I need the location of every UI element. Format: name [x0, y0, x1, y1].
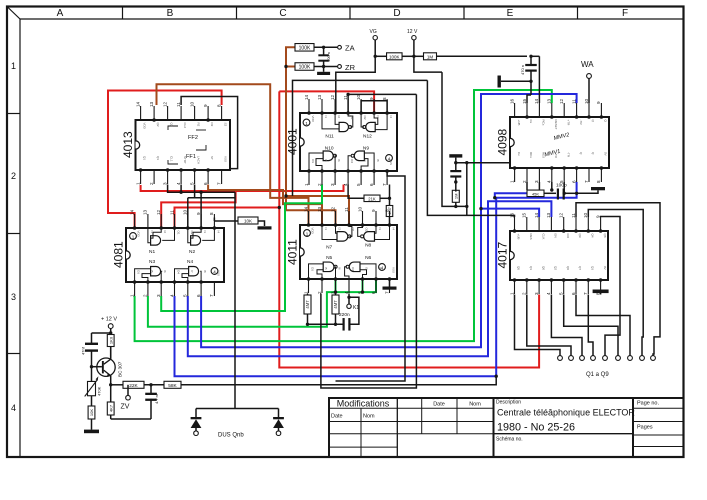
- svg-text:I3: I3: [378, 228, 382, 231]
- wire inner drop x=405 around 4011: [336, 171, 406, 381]
- svg-text:+ 12 V: + 12 V: [101, 317, 117, 323]
- svg-text:10: 10: [357, 206, 362, 212]
- svg-text:Cx: Cx: [529, 120, 533, 124]
- svg-text:1M: 1M: [427, 54, 434, 59]
- svg-text:O4: O4: [177, 270, 181, 274]
- svg-text:1: 1: [135, 182, 140, 185]
- IC 4011 body: [300, 225, 397, 279]
- IC 4081 top pins: [134, 214, 136, 228]
- svg-text:1: 1: [303, 291, 308, 294]
- svg-text:47nf: 47nf: [81, 346, 86, 355]
- capacitor 4.7nF: [145, 393, 157, 395]
- frame column dividers: [122, 7, 124, 20]
- svg-text:6: 6: [571, 180, 576, 183]
- terminal ZA: [338, 45, 342, 49]
- pin1 marker 4011: [304, 230, 311, 237]
- wire green G5 stub pin5: [362, 279, 364, 292]
- svg-text:4081: 4081: [112, 241, 126, 268]
- svg-text:RCx: RCx: [542, 120, 546, 126]
- svg-text:22K: 22K: [129, 383, 138, 389]
- wire transistor bias row 22K 58K: [111, 384, 123, 386]
- svg-text:LACH: LACH: [197, 156, 201, 164]
- svg-text:12 V: 12 V: [407, 29, 418, 35]
- wire 4098 bottom: 45K row: [527, 190, 544, 197]
- svg-text:Cx: Cx: [517, 152, 521, 156]
- svg-text:12: 12: [330, 206, 335, 212]
- svg-text:+TR: +TR: [566, 120, 570, 127]
- svg-text:10: 10: [189, 101, 194, 107]
- svg-text:I4: I4: [392, 228, 396, 231]
- terminal ZV: [127, 385, 129, 396]
- gate N1: [151, 236, 161, 245]
- svg-text:DUS Qnb: DUS Qnb: [218, 433, 244, 439]
- svg-text:Q2: Q2: [170, 123, 174, 127]
- svg-text:O1: O1: [351, 228, 355, 232]
- resistor 100K ZR: [295, 63, 314, 71]
- svg-text:11: 11: [176, 102, 181, 107]
- svg-text:100 n: 100 n: [326, 52, 331, 62]
- svg-text:STRT: STRT: [183, 156, 187, 164]
- svg-text:6: 6: [571, 292, 576, 295]
- IC 4098 bottom pins: [514, 168, 516, 182]
- svg-text:Q4: Q4: [591, 234, 595, 238]
- svg-text:-TR: -TR: [566, 152, 570, 158]
- svg-text:O3: O3: [311, 267, 315, 271]
- svg-text:470K: 470K: [97, 386, 102, 396]
- wire WA terminal to 4098 pin10: [588, 79, 590, 104]
- wire base to left column: [92, 366, 102, 368]
- svg-text:15: 15: [522, 212, 527, 218]
- svg-text:Q5: Q5: [517, 266, 521, 270]
- wire 4001 pin8 through resistor 4M7 to 4011 pin8: [389, 185, 391, 207]
- gate N6: [349, 262, 360, 272]
- svg-text:VDD: VDD: [143, 123, 147, 130]
- svg-text:I6: I6: [337, 159, 341, 162]
- IC 4081 body: [126, 228, 224, 282]
- svg-text:7: 7: [209, 294, 214, 297]
- svg-text:O2: O2: [363, 116, 367, 120]
- pin1 marker 4081: [130, 233, 137, 240]
- wire blue net BL2 (4098 pin6 MMV1 out to 4081 pin4): [175, 182, 577, 376]
- svg-text:O3: O3: [137, 270, 141, 274]
- IC 4013 internal leads: [168, 126, 178, 130]
- wire brown net B3 branch ZR: [286, 66, 295, 68]
- wire 4098 left timing node bar: [449, 154, 462, 157]
- wire 4011 pin8 stub link: [389, 216, 391, 225]
- svg-text:1K0: 1K0: [108, 336, 113, 344]
- svg-text:8: 8: [596, 180, 601, 183]
- wire brown net B1 (4013 pin13 to 4011): [157, 84, 309, 225]
- wire 4001 upper-outer loop: [293, 80, 428, 196]
- wire 4017 pin11 loop to terminal Q9: [576, 203, 660, 356]
- ground at 4017 pin8: [600, 290, 602, 295]
- svg-text:I1: I1: [324, 228, 328, 231]
- svg-text:15: 15: [522, 98, 527, 104]
- svg-text:I1: I1: [150, 231, 154, 234]
- wire supply row on to 4098 pin14: [531, 55, 539, 57]
- svg-text:3: 3: [330, 183, 335, 186]
- terminal ZR: [338, 65, 342, 69]
- IC 4013 bottom pins: [140, 170, 142, 184]
- wire blue net BL5 (to resistor 45K): [495, 193, 527, 197]
- svg-text:9: 9: [196, 212, 201, 215]
- wire red net R1 (4013 pin8 / 4081 pin14 / 4001 input): [108, 91, 222, 229]
- svg-text:2: 2: [522, 292, 527, 295]
- svg-text:10: 10: [583, 212, 588, 218]
- svg-text:12: 12: [330, 94, 335, 100]
- wire VG supply node: [336, 40, 375, 113]
- title block outer: [329, 398, 684, 457]
- svg-text:I1: I1: [324, 116, 328, 119]
- wire supply row to resistor 100K: [375, 55, 387, 57]
- svg-text:13: 13: [547, 98, 552, 104]
- capacitor 470n: [525, 64, 537, 66]
- svg-text:I5: I5: [324, 159, 328, 162]
- svg-text:+TR: +TR: [554, 152, 558, 159]
- svg-text:Q7: Q7: [578, 266, 582, 270]
- wire 4001 loop tall run to 4017 pin16: [427, 80, 514, 217]
- resistor 1M supply: [424, 53, 437, 60]
- svg-text:N3: N3: [149, 259, 155, 265]
- svg-text:I8: I8: [376, 159, 380, 162]
- svg-text:10: 10: [584, 98, 589, 104]
- svg-text:4: 4: [176, 182, 181, 185]
- potentiometer 470K: [88, 381, 96, 395]
- gate N12: [366, 122, 375, 131]
- svg-text:VSS: VSS: [224, 156, 228, 162]
- svg-text:Date: Date: [331, 414, 343, 420]
- transistor Q1 BC 307: [97, 358, 115, 376]
- svg-text:CLK: CLK: [541, 234, 545, 240]
- resistor 10K vertical: [88, 406, 95, 419]
- capacitor timing C (two plates): [450, 170, 461, 172]
- IC 4013 top pins: [140, 106, 142, 120]
- wire 4017 bottom staircase to terminals: [515, 295, 561, 356]
- svg-text:N10: N10: [325, 146, 334, 152]
- wire 4001/4011 interstage: resistor 21K row: [348, 185, 364, 199]
- svg-text:N8: N8: [365, 243, 371, 249]
- frame top band inner line: [20, 18, 684, 20]
- title block horizontal lines left/mid: [329, 407, 494, 409]
- svg-text:5: 5: [189, 182, 194, 185]
- svg-text:Modifications: Modifications: [337, 399, 390, 409]
- svg-text:7: 7: [382, 183, 387, 186]
- svg-text:4: 4: [344, 291, 349, 294]
- IC 4013 body: [136, 120, 231, 170]
- svg-text:2: 2: [317, 291, 322, 294]
- svg-text:N7: N7: [326, 245, 332, 251]
- svg-text:2: 2: [11, 171, 16, 181]
- wire 12V branch down to timing cluster: [442, 72, 467, 206]
- svg-text:C: C: [279, 8, 286, 19]
- svg-text:I7: I7: [365, 267, 369, 270]
- svg-text:10K: 10K: [89, 409, 94, 416]
- wire 4017 pin10 loop to terminal Q8: [588, 210, 643, 356]
- svg-text:1: 1: [509, 292, 514, 295]
- wire green G5 stub pin3: [335, 279, 337, 292]
- svg-text:5: 5: [183, 294, 188, 297]
- svg-text:7: 7: [584, 180, 589, 183]
- svg-text:Q8: Q8: [603, 234, 607, 238]
- svg-text:9: 9: [203, 104, 208, 107]
- svg-text:FF2: FF2: [188, 135, 198, 141]
- svg-text:RES: RES: [529, 234, 533, 240]
- wire 4013 pin5 net to 4081 pin10: [194, 185, 196, 198]
- wire timing node branch down to 4017 row: [466, 163, 468, 216]
- svg-text:6: 6: [196, 294, 201, 297]
- IC 4001 bottom pins: [308, 171, 310, 185]
- svg-text:I2: I2: [163, 231, 167, 234]
- svg-text:VG: VG: [370, 29, 377, 35]
- svg-text:Schéma no.: Schéma no.: [496, 437, 523, 443]
- wire long black drop to DUS diodes: [234, 192, 236, 408]
- svg-text:2: 2: [143, 294, 148, 297]
- svg-text:D2: D2: [210, 123, 214, 127]
- wire 4013 black net pin3/pin4 to long drop: [168, 185, 235, 193]
- svg-text:Nom: Nom: [469, 402, 481, 408]
- svg-text:12: 12: [559, 98, 564, 104]
- resistor 1K vertical: [107, 335, 114, 347]
- wire green net G5 (4081 pin2 to 4011 pins 3,5,6): [148, 279, 376, 327]
- svg-text:5: 5: [356, 183, 361, 186]
- resistor 1M vertical of timing: [452, 190, 459, 202]
- svg-text:Date: Date: [433, 402, 445, 408]
- wire brown net B3 branch to 4011 pin4: [286, 196, 349, 225]
- svg-text:VDD: VDD: [311, 116, 315, 123]
- svg-text:8: 8: [384, 209, 389, 212]
- svg-text:Q0: Q0: [541, 266, 545, 270]
- svg-text:B: B: [167, 8, 174, 19]
- svg-text:CL2: CL2: [183, 123, 187, 129]
- svg-text:4011: 4011: [286, 239, 300, 265]
- svg-text:4: 4: [11, 403, 16, 413]
- junction dots: [284, 65, 287, 68]
- svg-text:0V: 0V: [603, 266, 607, 270]
- wire decoupling bar to 470n node: [501, 80, 531, 82]
- svg-text:4K7: 4K7: [108, 404, 113, 412]
- svg-text:4: 4: [547, 180, 552, 183]
- wire ZA resistor to terminal: [314, 46, 337, 48]
- capacitor 100n between ZA and ZR: [318, 54, 329, 56]
- wire to rotated ground bar right of 100p: [577, 190, 598, 193]
- wire 4013 pin4 tap: [180, 185, 182, 193]
- svg-text:ZV: ZV: [121, 404, 130, 411]
- svg-text:Q1: Q1: [529, 266, 533, 270]
- output terminals Q1 a Q9: [558, 356, 563, 361]
- svg-text:I7: I7: [190, 270, 194, 273]
- svg-text:RES: RES: [542, 152, 546, 158]
- svg-text:6: 6: [371, 291, 376, 294]
- svg-text:10K: 10K: [244, 219, 252, 224]
- svg-text:4: 4: [546, 292, 551, 295]
- svg-text:I3: I3: [376, 116, 380, 119]
- svg-text:1: 1: [304, 183, 309, 186]
- svg-text:Centrale téléâphonique ELECTOR: Centrale téléâphonique ELECTOR: [497, 408, 635, 418]
- svg-text:11: 11: [571, 99, 576, 104]
- svg-text:5: 5: [559, 292, 564, 295]
- svg-text:ZR: ZR: [345, 63, 356, 72]
- wire 220n right plate loop to K1 node: [349, 297, 359, 324]
- svg-text:I8: I8: [378, 267, 382, 270]
- svg-text:14: 14: [534, 212, 539, 218]
- IC 4017 body: [510, 231, 608, 280]
- wire red net R4 vertical (to 4017 pin3): [279, 91, 539, 367]
- svg-text:12: 12: [162, 101, 167, 107]
- svg-text:1: 1: [11, 61, 16, 71]
- svg-text:O1: O1: [350, 116, 354, 120]
- svg-text:220n: 220n: [339, 312, 350, 318]
- svg-text:4M7: 4M7: [305, 300, 310, 309]
- frame row dividers: [7, 113, 20, 115]
- wire 4011 bottom resistor 4M7 a: [304, 295, 311, 314]
- svg-text:WA: WA: [581, 60, 594, 69]
- svg-text:10: 10: [183, 209, 188, 215]
- wire timing node to 4098 pin1: [456, 163, 515, 168]
- ground bottom-left: [84, 430, 99, 434]
- IC 4098 top pins: [514, 103, 516, 117]
- svg-text:S2: S2: [224, 123, 228, 127]
- svg-text:0V: 0V: [604, 152, 608, 156]
- svg-text:8: 8: [595, 292, 600, 295]
- wire 12V row through resistor 1M to 470n: [414, 55, 424, 57]
- svg-text:9: 9: [371, 209, 376, 212]
- decoupling plate bar: [498, 76, 501, 88]
- svg-text:6: 6: [369, 183, 374, 186]
- svg-text:+UB: +UB: [517, 234, 521, 240]
- svg-text:21K: 21K: [368, 196, 376, 201]
- wire 4.7nF bottom to 4K7 row: [111, 418, 151, 420]
- wire red net R4 branch from 4081 pin11: [175, 208, 280, 229]
- IC 4081 bottom pins: [134, 282, 136, 296]
- wire 47nf top to 12V node: [92, 332, 111, 334]
- wire red net R4a corner to 4001 pin9: [279, 91, 374, 113]
- svg-text:3: 3: [156, 294, 161, 297]
- wire 4013 pin5 net right branch to long drop: [188, 197, 235, 199]
- svg-text:VSS: VSS: [392, 267, 396, 273]
- svg-text:O2: O2: [190, 231, 194, 235]
- svg-text:Nom: Nom: [363, 414, 375, 420]
- svg-text:2: 2: [522, 180, 527, 183]
- svg-text:100K: 100K: [389, 54, 400, 59]
- svg-text:O2: O2: [365, 228, 369, 232]
- svg-text:14: 14: [534, 98, 539, 104]
- svg-text:I2: I2: [338, 228, 342, 231]
- gate N11: [339, 122, 348, 131]
- svg-text:3: 3: [534, 180, 539, 183]
- svg-text:VSS: VSS: [216, 270, 220, 276]
- svg-text:VDD: VDD: [137, 231, 141, 238]
- svg-text:9: 9: [595, 215, 600, 218]
- svg-text:Q3: Q3: [591, 266, 595, 270]
- svg-text:I3: I3: [203, 231, 207, 234]
- wire collector and emitter: [110, 347, 112, 360]
- ground under ZR node: [323, 67, 325, 72]
- svg-text:4: 4: [343, 183, 348, 186]
- svg-text:O3: O3: [311, 159, 315, 163]
- svg-text:1M: 1M: [453, 194, 458, 200]
- wire blue net BL3 (4081 pin5 to 4017 pin13): [188, 201, 552, 356]
- IC 4098 body: [510, 117, 609, 168]
- wire red net R2 (4013 pin1 to 4001): [141, 185, 344, 192]
- svg-text:Description: Description: [496, 400, 521, 406]
- gate N3: [151, 267, 161, 276]
- wire blue net BL1b (clock node down to 4081 pin6): [201, 209, 481, 348]
- wire 470n cap down to 4098 pin15: [530, 56, 532, 65]
- svg-text:CO: CO: [566, 234, 570, 239]
- svg-text:Q2: Q2: [554, 266, 558, 270]
- svg-text:CL1: CL1: [170, 156, 174, 162]
- resistor 100K ZA: [295, 44, 314, 52]
- svg-text:D: D: [393, 8, 400, 19]
- gate N4: [189, 267, 199, 276]
- svg-text:O4: O4: [351, 267, 355, 271]
- svg-text:4001: 4001: [286, 128, 300, 155]
- svg-text:9: 9: [369, 97, 374, 100]
- svg-text:I6: I6: [163, 270, 167, 273]
- svg-text:Q2: Q2: [156, 123, 160, 127]
- svg-text:8: 8: [209, 212, 214, 215]
- wire 12V branch right elbow: [414, 56, 442, 72]
- svg-text:12: 12: [156, 209, 161, 215]
- svg-text:I4: I4: [389, 116, 393, 119]
- pin4 marker 4081: [211, 268, 218, 275]
- svg-text:+UB: +UB: [517, 120, 521, 126]
- wire 47nf bottom to base node: [91, 350, 93, 382]
- gate N2: [191, 236, 201, 245]
- ground at 4011 pin7: [389, 279, 391, 287]
- svg-text:45K: 45K: [532, 191, 539, 196]
- resistor 100K supply: [387, 53, 403, 60]
- svg-text:RESET: RESET: [554, 120, 558, 130]
- gate N9: [354, 151, 364, 161]
- wire blue net BL1 (4098 pin11 to 4017 pin14 clock): [481, 94, 577, 217]
- svg-text:4: 4: [169, 294, 174, 297]
- svg-text:ZA: ZA: [345, 44, 355, 53]
- svg-text:4098: 4098: [496, 128, 510, 155]
- svg-text:13: 13: [149, 101, 154, 107]
- svg-text:F: F: [622, 8, 628, 19]
- wire branch down to 4081 pin9: [200, 192, 202, 228]
- svg-text:3: 3: [534, 292, 539, 295]
- svg-text:N1: N1: [149, 249, 155, 255]
- IC 4017 bottom pins: [514, 280, 516, 294]
- svg-text:N11: N11: [325, 134, 334, 140]
- svg-text:3: 3: [11, 292, 16, 302]
- svg-text:16: 16: [509, 98, 514, 104]
- svg-text:5: 5: [559, 180, 564, 183]
- svg-text:Pages: Pages: [637, 425, 653, 431]
- wire 4098 pin2-5 taps to timing row: [526, 182, 528, 190]
- svg-text:8: 8: [382, 97, 387, 100]
- svg-text:14: 14: [304, 94, 309, 100]
- svg-text:O4: O4: [350, 159, 354, 163]
- svg-text:N5: N5: [326, 255, 332, 261]
- svg-text:6: 6: [203, 182, 208, 185]
- svg-text:Q6: Q6: [566, 266, 570, 270]
- svg-text:100K: 100K: [299, 65, 311, 71]
- gate N7: [337, 232, 348, 242]
- svg-text:-TR: -TR: [579, 120, 583, 126]
- svg-text:EN: EN: [554, 234, 558, 238]
- svg-text:16: 16: [509, 212, 514, 218]
- pin4 marker 4011: [379, 264, 386, 271]
- svg-text:11: 11: [571, 213, 576, 218]
- svg-text:Q1: Q1: [143, 156, 147, 160]
- node K1: [347, 304, 351, 308]
- svg-text:13: 13: [546, 212, 551, 218]
- svg-text:7: 7: [384, 291, 389, 294]
- gate N5: [323, 262, 334, 272]
